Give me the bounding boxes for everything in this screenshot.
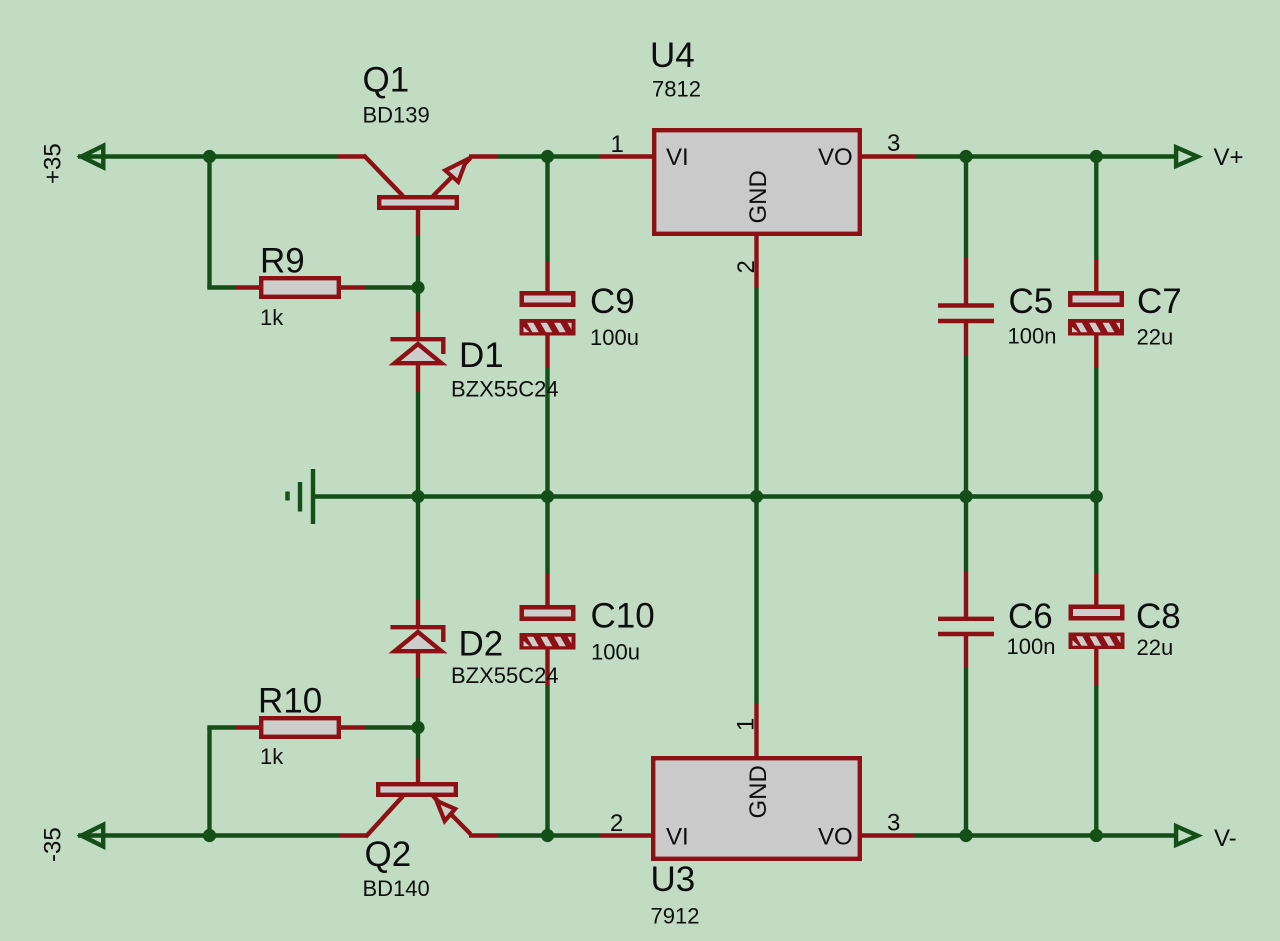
svg-text:C10: C10 — [591, 597, 655, 636]
wire C7 bottom to GND rail — [1094, 367, 1098, 497]
wire C8 bottom to bottom rail — [1094, 686, 1098, 836]
junction node GND rail at C5 column — [959, 490, 972, 503]
junction node GND rail at D column — [411, 490, 424, 503]
wire left vertical to R9 — [207, 157, 211, 288]
resistor R10 — [235, 718, 365, 737]
wire bottom rail green V- section — [915, 833, 1175, 837]
wire C7 column top green — [1094, 157, 1098, 260]
diode D1 zener — [391, 311, 446, 392]
wire base node to D1 — [416, 288, 420, 312]
wire GND rail horizontal — [313, 494, 1096, 498]
wire GND rail to U3 GND pin — [754, 497, 758, 704]
wire top rail green V+ section — [916, 154, 1175, 158]
junction node top rail at C5 — [959, 150, 972, 163]
wire -35 rail bottom left green — [78, 833, 340, 837]
junction node bottom rail at C8 — [1090, 829, 1103, 842]
junction node base of Q1 R9 D1 — [411, 281, 424, 294]
wire R9 right to base node — [365, 285, 418, 289]
svg-text:C8: C8 — [1136, 597, 1181, 636]
wire C10 bottom to bottom rail — [545, 686, 549, 836]
wire bottom rail green between Q2 and U3 VI pin — [497, 833, 600, 837]
junction node bottom rail at R10 column — [203, 829, 216, 842]
junction node GND rail at regulator column — [750, 490, 763, 503]
svg-text:D2: D2 — [459, 625, 504, 664]
wire C9 bottom to GND rail — [545, 367, 549, 497]
junction node bottom rail at C10 — [541, 829, 554, 842]
wire C9 column top green — [545, 157, 549, 262]
wire GND rail to C8 — [1094, 497, 1098, 575]
svg-text:VO: VO — [818, 144, 853, 171]
svg-text:U4: U4 — [650, 36, 695, 75]
svg-text:22u: 22u — [1137, 325, 1174, 350]
junction node top rail at C9 — [541, 150, 554, 163]
svg-text:1: 1 — [611, 131, 624, 158]
svg-text:BD139: BD139 — [363, 103, 430, 128]
svg-text:3: 3 — [887, 810, 900, 837]
op-amp U4 regulator 7812 — [600, 130, 916, 287]
capacitor C7 polarized — [1068, 259, 1124, 367]
svg-text:BZX55C24: BZX55C24 — [451, 663, 559, 688]
output arrow V+ — [1176, 147, 1198, 166]
svg-text:GND: GND — [745, 170, 772, 223]
svg-text:Q1: Q1 — [363, 61, 410, 100]
wire U4 GND pin to GND rail — [754, 288, 758, 497]
svg-text:R9: R9 — [260, 242, 305, 281]
svg-text:3: 3 — [887, 130, 900, 157]
wire +35 rail top left green — [78, 154, 338, 158]
wire R10 right horizontal — [365, 725, 418, 729]
op-amp U3 regulator 7912 — [600, 703, 915, 859]
wire D2 anode to R10 node — [416, 678, 420, 728]
svg-text:7812: 7812 — [652, 77, 701, 102]
svg-text:2: 2 — [610, 810, 623, 837]
wire GND rail to D2 — [416, 497, 420, 600]
transistor Q2 — [340, 759, 497, 838]
svg-text:100n: 100n — [1007, 634, 1056, 659]
svg-text:GND: GND — [745, 765, 772, 818]
svg-text:VI: VI — [666, 824, 689, 851]
wire top rail green between Q1 emitter and U4 VI pin — [497, 154, 600, 158]
capacitor C8 polarized — [1069, 574, 1125, 686]
wire Q1 base vertical green — [416, 235, 420, 288]
svg-text:100u: 100u — [591, 640, 640, 665]
wire R10 node to Q2 base — [416, 728, 420, 759]
wire R9 left elbow horizontal — [207, 285, 235, 289]
svg-text:U3: U3 — [651, 860, 696, 899]
transistor Q1 — [338, 155, 497, 235]
supply arrow -35 — [81, 825, 103, 847]
svg-text:C9: C9 — [590, 282, 635, 321]
svg-text:V+: V+ — [1214, 144, 1244, 171]
capacitor C6 — [938, 571, 994, 667]
svg-text:100n: 100n — [1008, 324, 1057, 349]
wire C5 column top green — [964, 157, 968, 259]
capacitor C9 polarized — [520, 261, 576, 367]
svg-text:-35: -35 — [40, 827, 67, 862]
wire C6 bottom to bottom rail — [964, 667, 968, 836]
svg-text:D1: D1 — [459, 336, 504, 375]
svg-text:C5: C5 — [1009, 282, 1054, 321]
output arrow V- — [1176, 826, 1198, 845]
svg-text:VO: VO — [818, 824, 853, 851]
svg-text:2: 2 — [733, 260, 760, 273]
svg-text:R10: R10 — [258, 682, 322, 721]
junction node top rail at C7 — [1090, 150, 1103, 163]
junction node base of Q2 R10 D2 — [411, 721, 424, 734]
ground — [288, 469, 314, 524]
supply arrow +35 — [81, 146, 103, 168]
wire GND rail to C6 — [964, 497, 968, 572]
junction node GND rail at C9 column — [541, 490, 554, 503]
junction node top rail at R9 column — [203, 150, 216, 163]
wire left vertical R10 to -35 rail — [207, 728, 211, 836]
svg-text:Q2: Q2 — [365, 835, 412, 874]
svg-text:1: 1 — [733, 718, 760, 731]
resistor R9 — [235, 278, 365, 297]
svg-text:BD140: BD140 — [363, 876, 430, 901]
capacitor C5 — [938, 258, 994, 355]
wire D1 anode to GND rail — [416, 392, 420, 497]
svg-text:VI: VI — [666, 144, 689, 171]
svg-text:C6: C6 — [1008, 597, 1053, 636]
wire R10 left elbow horizontal — [207, 725, 235, 729]
svg-text:+35: +35 — [40, 143, 67, 184]
wire C5 bottom to GND rail — [964, 355, 968, 497]
junction node bottom rail at C6 — [959, 829, 972, 842]
svg-text:C7: C7 — [1137, 282, 1182, 321]
svg-text:1k: 1k — [260, 744, 284, 769]
svg-text:V-: V- — [1214, 825, 1237, 852]
diode D2 zener — [391, 599, 446, 678]
wire GND rail to C10 — [545, 497, 549, 575]
capacitor C10 polarized — [520, 574, 576, 686]
svg-text:7912: 7912 — [651, 904, 700, 929]
junction node GND rail end at C7 column — [1090, 490, 1103, 503]
svg-text:22u: 22u — [1137, 635, 1174, 660]
svg-text:BZX55C24: BZX55C24 — [451, 377, 559, 402]
svg-text:100u: 100u — [590, 325, 639, 350]
svg-text:1k: 1k — [260, 305, 284, 330]
